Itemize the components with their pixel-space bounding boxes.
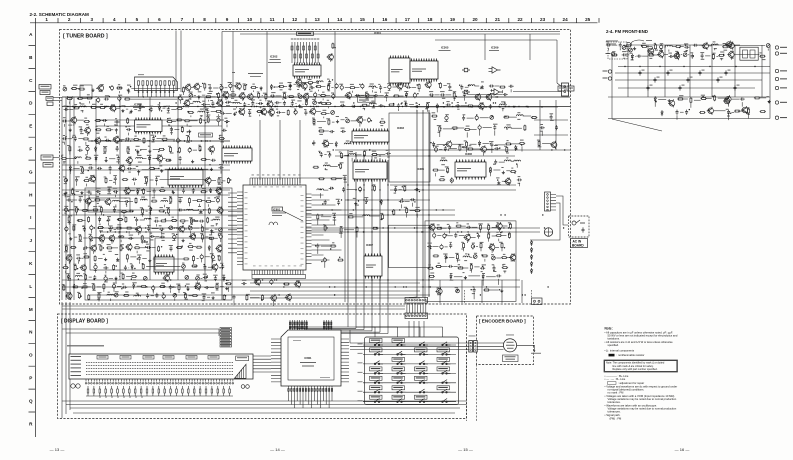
svg-text:— 16 —: — 16 —	[675, 447, 690, 452]
svg-text:(FM) : FM: (FM) : FM	[610, 416, 623, 420]
IC306 regulator chip	[455, 159, 486, 180]
svg-text:[ TUNER BOARD ]: [ TUNER BOARD ]	[63, 34, 108, 40]
IC206 label	[133, 103, 145, 108]
IC608 chip	[154, 254, 174, 275]
FM crystal filter box	[740, 47, 758, 60]
FM mid line capacitors	[639, 70, 740, 91]
svg-text:O: O	[29, 353, 33, 358]
svg-text:— 13 —: — 13 —	[50, 447, 65, 452]
IC205 chip mid-left	[222, 145, 252, 164]
diode chain power rectifier	[530, 240, 532, 274]
LCD driver IC801 QFP	[271, 320, 349, 408]
svg-text:[ DISPLAY BOARD ]: [ DISPLAY BOARD ]	[61, 319, 108, 325]
svg-text:6: 6	[158, 17, 161, 22]
svg-text:20: 20	[472, 17, 478, 22]
component cluster: FM front-end parts lower	[654, 95, 771, 120]
junction dots on buses	[67, 96, 566, 295]
connector CN901 vertical	[545, 192, 557, 211]
svg-text:1: 1	[45, 17, 48, 22]
component cluster: power supply lower	[429, 272, 504, 299]
connector CN201 trapezoid	[135, 74, 178, 97]
svg-text:IC309: IC309	[491, 46, 499, 50]
sub-circuit stage box 1	[88, 198, 130, 212]
op-amp U1	[489, 67, 501, 73]
svg-text:L: L	[29, 284, 32, 289]
connector label stack	[220, 328, 232, 348]
signal meter wedge	[235, 364, 247, 378]
FM buffer transistor Q5	[723, 97, 730, 105]
sub-circuit outline box detector	[389, 225, 430, 267]
wire display to encoder	[350, 330, 477, 421]
TUNING CONTROL label box	[503, 355, 519, 362]
component cluster: left lower section	[62, 187, 229, 302]
sub-circuit outline box power section	[425, 221, 516, 301]
svg-text:8: 8	[203, 17, 206, 22]
IC204 chip	[389, 55, 410, 86]
svg-text:[ ENCODER BOARD ]: [ ENCODER BOARD ]	[479, 319, 526, 324]
wire vertical bus lines	[62, 32, 530, 303]
IC307 chip	[364, 253, 382, 279]
FM front-end terminals right	[775, 46, 787, 120]
TUNER BOARD dashed outline	[60, 30, 571, 305]
svg-text:IC201: IC201	[374, 31, 381, 35]
AC SW relay	[572, 220, 585, 233]
sub-box chain left	[80, 85, 92, 98]
FM if transistor Q4	[668, 99, 675, 107]
wire MCU stub buses	[228, 193, 342, 260]
wire verticals top left	[176, 31, 181, 93]
dashed verticals board joins	[465, 290, 532, 304]
svg-text:• — · — : B– Line: • — · — : B– Line	[605, 377, 626, 381]
svg-text:24: 24	[563, 17, 569, 22]
svg-text:10: 10	[247, 17, 253, 22]
column numbers 1-25	[45, 17, 590, 22]
svg-text:5: 5	[136, 17, 139, 22]
DISPLAY BOARD dashed outline	[58, 314, 467, 419]
left edge jack connectors	[39, 85, 62, 106]
microcontroller IC601 system control	[237, 175, 312, 279]
svg-text:IC307: IC307	[366, 243, 373, 247]
svg-text:IC206: IC206	[134, 103, 142, 107]
wire bus tuner to display	[62, 302, 424, 418]
svg-text:23: 23	[540, 17, 546, 22]
component cluster: IF chain upper	[327, 43, 336, 62]
LCD pin row	[85, 379, 234, 384]
component cluster: right of mcu lower	[315, 242, 344, 267]
label box tape config	[297, 32, 314, 36]
left ruler line	[34, 23, 36, 437]
wire long verticals left half	[120, 97, 522, 303]
svg-text:: nonflammable resistor: : nonflammable resistor	[617, 353, 645, 357]
FM rf transistor Q2	[647, 47, 654, 55]
svg-text:IC202: IC202	[270, 55, 278, 59]
junction dots on vertical bundle	[347, 155, 429, 287]
svg-text:13: 13	[315, 17, 321, 22]
component cluster: power supply section	[427, 222, 516, 273]
svg-text:: adjustment for repair: : adjustment for repair	[618, 381, 644, 385]
encoder connector	[469, 336, 504, 353]
component cluster: RF front chain	[63, 84, 184, 114]
svg-text:15: 15	[360, 17, 366, 22]
connector CN302 right	[562, 83, 569, 96]
sub-circuit outline box IC308	[389, 113, 430, 182]
svg-text:— 15 —: — 15 —	[458, 447, 473, 452]
MEMORY indicator box	[236, 356, 249, 361]
svg-text:F: F	[29, 147, 32, 152]
capacitor C310	[462, 68, 470, 72]
svg-text:12: 12	[292, 17, 298, 22]
wire display bottom bus	[62, 396, 466, 413]
svg-text:22: 22	[517, 17, 523, 22]
svg-text:— 14 —: — 14 —	[270, 447, 285, 452]
svg-text:IC601: IC601	[273, 207, 281, 211]
wire mid horizontal bus lines	[62, 120, 570, 298]
AC SW BOARD label	[571, 239, 588, 248]
svg-text:16: 16	[382, 17, 388, 22]
svg-text:11: 11	[270, 17, 275, 22]
wire main signal bus	[62, 97, 570, 107]
svg-text:IC801: IC801	[305, 356, 312, 360]
sub-circuit outline left stages	[85, 188, 232, 300]
svg-text:no mark : FM: no mark : FM	[608, 391, 625, 395]
wire dark bus y141	[88, 140, 230, 141]
sub-circuit stage box 2	[90, 238, 150, 270]
transformer T901	[544, 228, 552, 236]
AC SW BOARD dashed outline	[569, 216, 590, 237]
component cluster: FM front-end parts upper	[606, 41, 770, 60]
component cluster: pll section	[392, 185, 421, 218]
FM mixer transistor Q3	[673, 52, 680, 60]
svg-text:2-4. FM FRONT-END: 2-4. FM FRONT-END	[606, 29, 648, 34]
svg-text:IC306: IC306	[465, 152, 472, 156]
connector holes left	[71, 384, 80, 388]
svg-text:2-2. SCHEMATIC DIAGRAM: 2-2. SCHEMATIC DIAGRAM	[30, 12, 90, 17]
svg-text:19: 19	[450, 17, 456, 22]
wire top bus lines	[222, 32, 560, 35]
svg-text:P: P	[29, 376, 32, 381]
notes legend and remarks	[605, 374, 678, 420]
svg-text:2: 2	[68, 17, 71, 22]
FM local oscillator transistor Q1	[725, 41, 732, 49]
IC604 chip left lower	[168, 167, 203, 188]
component cluster: mid chips area	[312, 116, 391, 183]
component cluster: IF chain below chip	[289, 78, 333, 87]
FM front-end wire grid	[606, 40, 770, 119]
svg-text:IC305: IC305	[417, 167, 424, 171]
component cluster: detector chain	[339, 82, 420, 112]
wire display to QFP	[100, 356, 271, 398]
rotary encoder S801	[503, 335, 516, 352]
svg-text:14: 14	[337, 17, 343, 22]
svg-text:21: 21	[495, 17, 501, 22]
svg-text:Replace only with part number: Replace only with part number specified.	[613, 368, 658, 371]
FM agc transistor Q6	[741, 106, 748, 114]
row ruler ticks	[29, 46, 36, 412]
connector CN601 upper	[405, 298, 428, 304]
op-amp U2	[491, 89, 503, 95]
svg-text:3: 3	[91, 17, 94, 22]
svg-text:4: 4	[113, 17, 116, 22]
wire to AC SW board	[530, 196, 568, 240]
resistor network row below LCD	[87, 386, 230, 396]
component cluster: left mid section	[61, 116, 232, 186]
IC201 tuner IF chip	[293, 62, 321, 79]
svg-text:BOARD: BOARD	[572, 244, 584, 248]
component cluster: right upper sparse	[430, 112, 558, 153]
component cluster: regulator area	[432, 144, 522, 186]
connector holes right	[241, 385, 249, 389]
label box display feed 2	[199, 133, 213, 137]
terminal boxes main chain right	[558, 86, 574, 91]
wire display top feed	[62, 329, 219, 336]
label box display feed	[358, 95, 376, 102]
transistor Q303	[474, 93, 481, 101]
FM front-end terminals left	[603, 52, 615, 80]
component cluster: below mcu	[225, 278, 300, 306]
wire stage horizontals	[62, 100, 568, 302]
component cluster: mid bus area	[317, 184, 384, 238]
filter labels	[232, 72, 263, 77]
svg-text:18: 18	[427, 17, 433, 22]
svg-text:G: G	[29, 169, 33, 174]
IC301 FM detector chip	[410, 58, 438, 82]
top ruler line	[30, 22, 598, 24]
svg-text:J: J	[30, 238, 33, 243]
svg-text:7: 7	[181, 17, 184, 22]
IC602 chip left	[135, 117, 163, 134]
svg-text:• Δ : internal components: • Δ : internal components	[605, 349, 635, 353]
svg-text:specified.: specified.	[608, 343, 620, 347]
notes text block	[605, 327, 678, 358]
component cluster: stereo out	[424, 81, 513, 113]
transistor Q304	[485, 93, 492, 101]
component cluster: main chain mid	[183, 82, 338, 118]
FM antenna trimmers	[622, 46, 632, 52]
resistor ladder above IC201	[291, 39, 320, 64]
IC305 chip	[353, 159, 387, 182]
wire encoder to power	[517, 345, 541, 353]
connector CN602 lower	[405, 313, 428, 319]
LCD display module	[67, 345, 253, 379]
svg-text:IC303: IC303	[397, 126, 404, 130]
svg-text:17: 17	[405, 17, 411, 22]
svg-text:9: 9	[226, 17, 229, 22]
FM front-end antenna dashed box	[608, 42, 627, 59]
svg-text:Note:: Note:	[605, 327, 613, 331]
svg-text:tolerances.: tolerances.	[608, 410, 621, 414]
svg-text:M: M	[29, 307, 33, 312]
sub-circuit stage box 3	[155, 238, 212, 270]
IC303 chip	[352, 128, 389, 145]
IC202 label	[268, 55, 281, 63]
svg-text:E: E	[29, 124, 32, 129]
connector CN604 small	[532, 298, 543, 305]
svg-text:Q: Q	[29, 398, 33, 403]
ENCODER BOARD dashed outline	[477, 316, 534, 365]
wire keypad feed lines	[348, 327, 443, 330]
svg-text:25: 25	[585, 17, 591, 22]
svg-text:I: I	[30, 215, 31, 220]
key switch matrix block	[358, 330, 459, 405]
row letters A-R	[29, 32, 33, 426]
capacitor C311	[462, 90, 470, 94]
wire CN601 to CN602 pins	[407, 303, 426, 313]
svg-text:IC305: IC305	[441, 46, 449, 50]
wire FM bottom exit	[612, 119, 662, 131]
notes safety box	[604, 360, 678, 372]
column ruler ticks	[36, 18, 600, 23]
wire top loop to connector	[410, 40, 562, 108]
left edge labels row C	[41, 155, 60, 167]
